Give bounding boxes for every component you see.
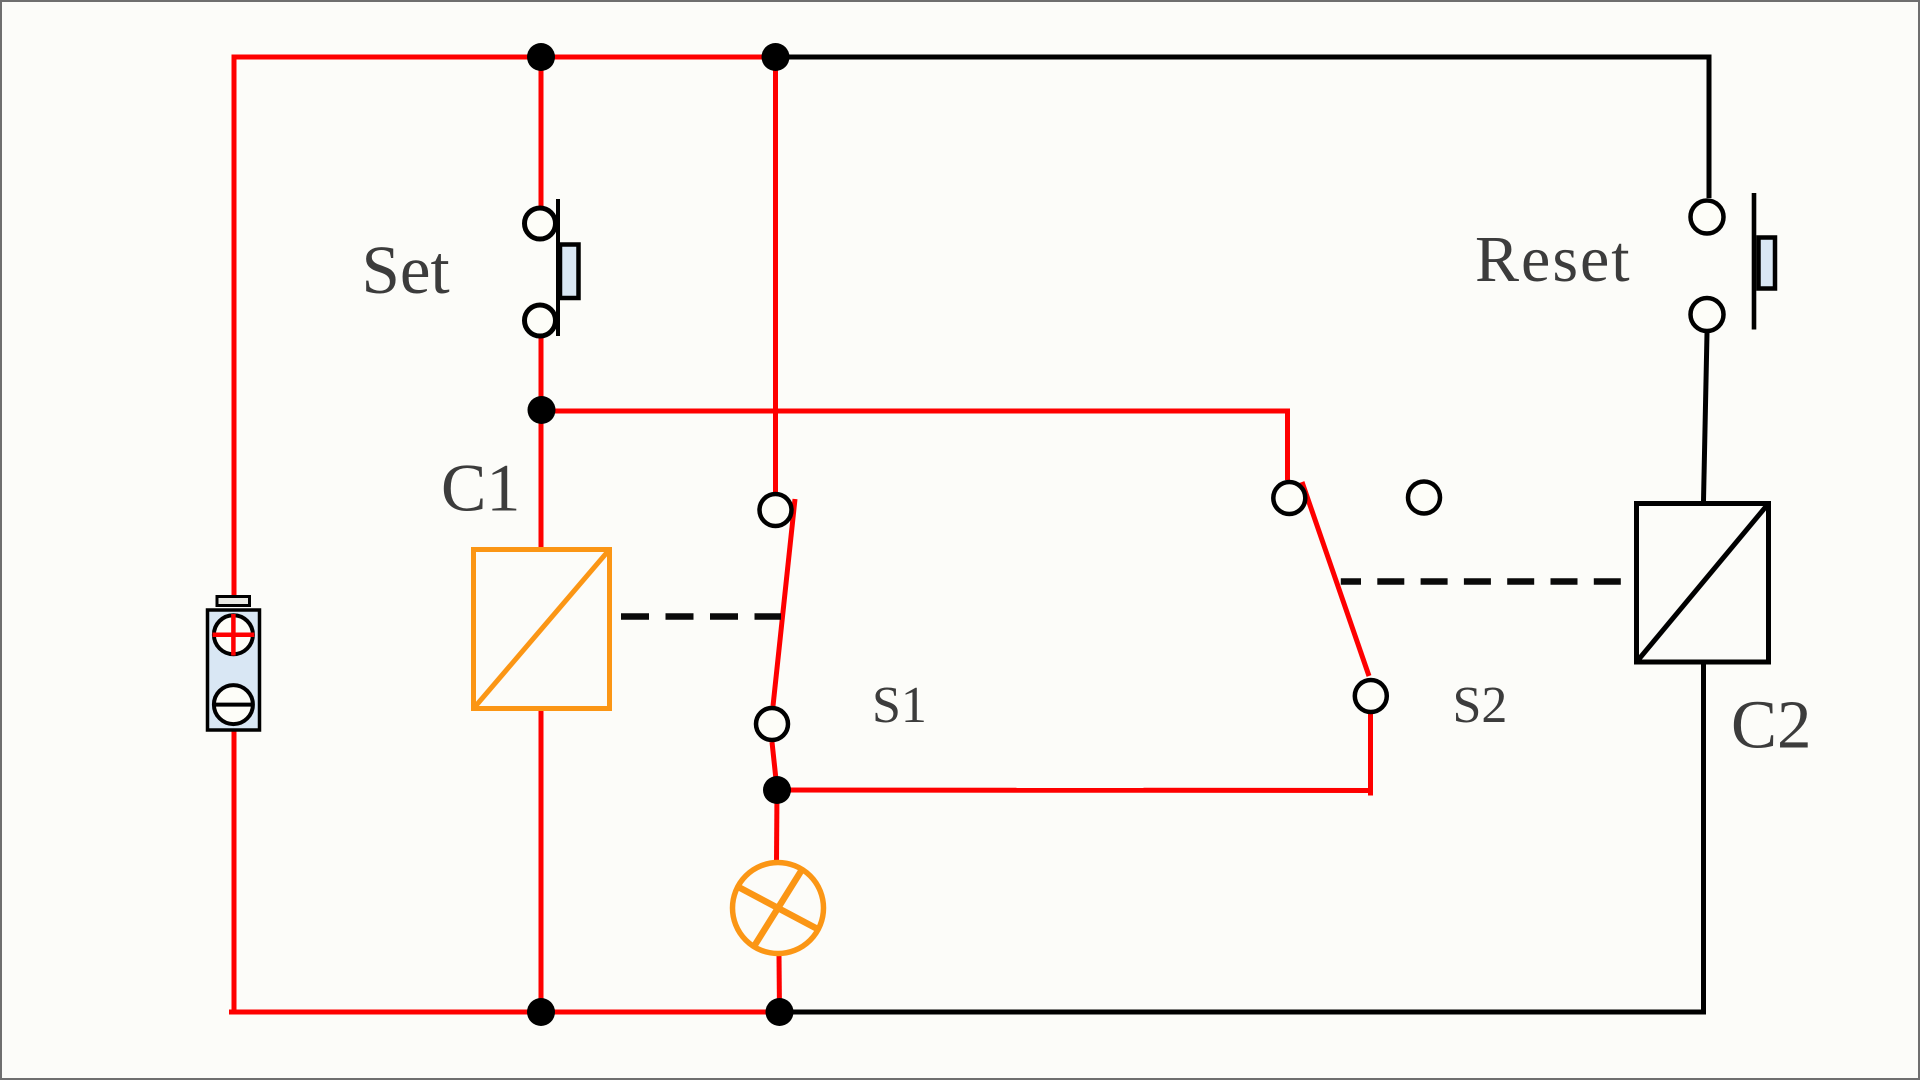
relay coil C2 [1637, 504, 1769, 663]
wire black bottom horizontal (bottom-right corner to lamp node E) [780, 1010, 1707, 1015]
wire left vertical red (top corner down to battery top) [232, 55, 237, 597]
switch S1 blade (closed contact) [773, 499, 795, 706]
switch S2 top-left contact [1273, 482, 1305, 514]
wire red center vertical (node B down to S1 top contact) [773, 57, 778, 492]
wire red Set branch upper (node A down to Set button) [539, 57, 544, 206]
wire red S2 bottom contact down to corner [1371, 714, 1374, 793]
wire black C2 coil bottom down to bottom-right corner [1701, 665, 1706, 1013]
svg-text:S1: S1 [872, 677, 927, 734]
node junction D [763, 776, 791, 804]
node junction top B [762, 43, 790, 71]
wire black top horizontal (node B to right corner) [776, 55, 1710, 60]
push button Reset plunger cap [1759, 238, 1776, 289]
node junction bottom C1 [527, 998, 555, 1026]
battery B1 cap [217, 597, 250, 606]
push button Set contact top [525, 208, 556, 239]
lamp L1 [733, 863, 824, 954]
push button Set contact bottom [525, 305, 556, 336]
wire red Set branch lower (Set button to C1 coil top, through node C) [539, 338, 544, 547]
battery B1 body [208, 610, 260, 730]
svg-text:C1: C1 [441, 450, 520, 526]
wire red middle horizontal (node C to S2 corner) [541, 409, 1288, 414]
node junction top Set [527, 43, 555, 71]
wire top red horizontal (battery+ to node B) [232, 55, 776, 60]
wire black right vertical (corner down to Reset top contact) [1707, 55, 1712, 199]
push button Set plunger bar [556, 199, 560, 336]
dashed link S2 contact to C2 coil [1341, 578, 1633, 584]
wire red horizontal node D to S2 bottom drop [777, 788, 1371, 794]
wire red S2 drop (corner down to S2 top contact) [1285, 409, 1290, 481]
wire bottom red horizontal (bottom-left corner to lamp node) [232, 1010, 780, 1013]
push button Set plunger cap [560, 245, 579, 299]
wire left vertical red (battery bottom to bottom-left corner) [232, 729, 237, 1012]
battery B1 negative terminal [214, 685, 253, 724]
switch S1 bottom contact [756, 708, 788, 740]
switch S2 blade (closed contact) [1302, 482, 1369, 676]
relay coil C1 [474, 550, 610, 709]
svg-text:S2: S2 [1453, 677, 1508, 734]
push button Reset contact bottom [1691, 298, 1724, 331]
switch S1 top contact [760, 494, 792, 526]
push button Reset plunger bar [1752, 193, 1757, 330]
wire black Reset bottom contact to C2 coil top [1704, 333, 1708, 501]
wire red C1 bottom to bottom rail [539, 711, 544, 1012]
battery B1 positive terminal [214, 615, 253, 654]
dashed link C1 coil to S1 contact [621, 613, 781, 619]
svg-text:Set: Set [362, 232, 450, 308]
svg-text:Reset: Reset [1475, 223, 1632, 296]
node junction C [528, 396, 556, 424]
wire red S1 bottom contact to node D [772, 742, 777, 789]
wire red node D down to lamp top [774, 790, 780, 861]
node junction bottom E [766, 998, 794, 1026]
push button Reset contact top [1691, 201, 1724, 234]
wire red lamp bottom to bottom rail node E [777, 955, 783, 1012]
svg-text:C2: C2 [1731, 687, 1812, 763]
switch S2 open contact [1408, 482, 1440, 514]
switch S2 bottom contact [1355, 680, 1387, 712]
